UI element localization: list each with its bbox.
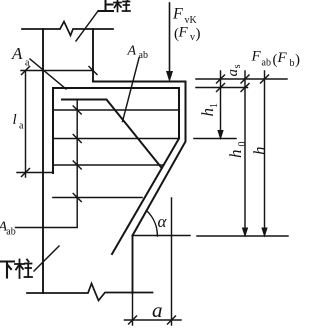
- l_a tick bottom: [22, 169, 30, 177]
- svg-text:a: a: [19, 121, 24, 132]
- upper column right edge: [92, 29, 94, 82]
- tick on stirrup 2: [73, 135, 81, 143]
- label h rotated: [250, 147, 269, 156]
- stirrup group leader: [16, 100, 78, 228]
- dim a : right extension: [171, 198, 173, 325]
- stirrup 2: [53, 138, 179, 140]
- corbel top surface: [93, 81, 186, 83]
- dim line h1: [220, 71, 222, 130]
- glyph 柱 (upper): [114, 0, 130, 12]
- lower column right face: [132, 236, 134, 294]
- right extension line top (corbel top level): [196, 78, 287, 80]
- svg-text:v: v: [190, 32, 195, 43]
- svg-text:A: A: [127, 44, 137, 59]
- dim line h: [264, 71, 266, 228]
- upper column break line: [22, 22, 113, 36]
- svg-text:a: a: [152, 298, 163, 322]
- tick on h line: [261, 75, 269, 83]
- svg-text:ab: ab: [262, 58, 271, 69]
- glyph 下: [1, 262, 15, 278]
- tick on stirrup 3: [73, 161, 81, 169]
- svg-text:F: F: [277, 50, 288, 66]
- glyph 柱 (lower): [15, 260, 32, 279]
- corbel outer face: [133, 82, 186, 236]
- ticks on h0 line: [241, 75, 249, 83]
- load arrow F_vK: [169, 3, 171, 72]
- column left edge: [42, 29, 44, 293]
- upper column leader: [76, 11, 98, 41]
- A_a label leader: [30, 59, 66, 89]
- tick on stirrup 4: [73, 194, 81, 202]
- label h_1 rotated: [198, 103, 220, 117]
- tick on stirrup 1: [73, 106, 81, 114]
- svg-text:h: h: [198, 108, 217, 117]
- l_a bottom extension line: [17, 172, 53, 174]
- dim a line: [125, 319, 182, 321]
- dim line h0: [244, 71, 246, 228]
- svg-text:0: 0: [237, 142, 248, 147]
- anchorage dim l_a : top extension line: [21, 70, 93, 72]
- svg-text:F: F: [172, 6, 183, 23]
- extension line h1 bottom: [194, 138, 236, 140]
- svg-text:): ): [295, 52, 300, 68]
- svg-text:1: 1: [209, 103, 220, 108]
- svg-text:h: h: [226, 150, 245, 159]
- right extension line rebar level: [196, 87, 248, 89]
- lower column leader (下柱): [34, 246, 59, 271]
- svg-text:a: a: [25, 58, 30, 69]
- stirrup 4: [53, 197, 142, 199]
- l_a tick top: [22, 67, 30, 75]
- svg-text:a: a: [225, 69, 241, 77]
- label a_s rotated: [225, 64, 243, 76]
- svg-text:b: b: [290, 58, 295, 69]
- glyph 上: [99, 0, 114, 11]
- bottom extension line (corbel bottom level): [197, 235, 288, 237]
- svg-text:α: α: [158, 212, 168, 231]
- l_a dim line: [25, 71, 27, 178]
- lower column break line: [27, 284, 153, 301]
- svg-text:s: s: [232, 64, 243, 68]
- svg-text:F: F: [178, 25, 189, 41]
- svg-text:h: h: [250, 147, 269, 156]
- svg-text:A: A: [11, 44, 23, 63]
- A_ab top label leader: [123, 58, 140, 122]
- angle alpha arc: [147, 211, 158, 237]
- dim a : left extension: [132, 293, 134, 325]
- svg-text:F: F: [251, 49, 262, 65]
- ticks a_s on h1 line: [217, 75, 225, 83]
- svg-text:ab: ab: [6, 227, 15, 238]
- svg-text:): ): [196, 26, 201, 42]
- dim a ticks: [129, 316, 137, 324]
- svg-text:l: l: [13, 112, 17, 128]
- stirrup 3: [53, 164, 164, 166]
- bent bar A_ab: [62, 100, 162, 169]
- stirrup 1: [53, 109, 179, 111]
- label h_0 rotated: [226, 142, 248, 159]
- svg-text:ab: ab: [139, 50, 148, 61]
- alpha baseline: [133, 235, 191, 237]
- tick at column face on extension: [89, 67, 97, 75]
- main bar A_a: [53, 88, 179, 254]
